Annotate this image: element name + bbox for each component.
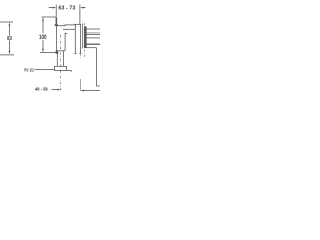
body bottom-right edge (96, 85, 100, 87)
dim 83 top extension line (0, 21, 13, 23)
plate bottom cap back (79, 53, 81, 55)
housing right edge (64, 33, 66, 51)
svg-text:63 - 73: 63 - 73 (58, 6, 75, 12)
body centerline dash-dot (84, 23, 86, 57)
handle bar (56, 17, 58, 24)
svg-text:100: 100 (39, 34, 47, 41)
dim 100 top extension line (42, 16, 56, 18)
body boss (84, 26, 86, 48)
housing inner line (63, 28, 75, 30)
bottom pipe right wall (63, 51, 65, 67)
body line c (86, 43, 100, 45)
wall line upper (right extension of dim 63-73) (79, 5, 81, 25)
body right vertical (95, 48, 97, 86)
wall line lower dash-dot to bottom dim (79, 54, 81, 58)
dim 48-58 left arrow (52, 89, 61, 91)
handle hub (55, 24, 58, 26)
body top edge (86, 28, 100, 30)
nut outline (55, 66, 67, 70)
dim 100 bottom extension line (40, 52, 56, 54)
svg-text:83: 83 (7, 36, 12, 42)
junction blob (56, 51, 59, 54)
svg-text:48 - 58: 48 - 58 (35, 86, 48, 91)
dim 48-58 right arrow (80, 90, 100, 92)
plate back line (79, 24, 81, 53)
housing stub (65, 33, 67, 35)
plate front line (74, 24, 76, 53)
dim 83 line with arrows (9, 22, 11, 54)
body line b (86, 37, 100, 39)
leader line (35, 69, 55, 71)
nut bottom extension (67, 69, 72, 71)
plate top cap (75, 23, 82, 25)
dim 100 line with arrows (42, 17, 44, 52)
nut bottom tick (70, 70, 72, 72)
dim 83 bottom extension line (0, 54, 14, 56)
body left edge (85, 26, 87, 48)
bottom pipe left wall (56, 51, 58, 67)
dim 63-73 left extension line (55, 5, 57, 17)
pipe centerline dash-dot (60, 35, 62, 92)
dim 63-73 right arrow (80, 7, 85, 9)
housing bottom edge (57, 50, 66, 52)
plate bottom cap front (74, 53, 76, 55)
housing top edge (57, 24, 76, 27)
housing left edge (56, 25, 58, 51)
inner wall line (82, 24, 84, 49)
svg-text:RC 1/2: RC 1/2 (24, 68, 34, 74)
dim 63-73 left arrow (49, 7, 57, 9)
body bottom edge (86, 47, 96, 49)
body line a (86, 32, 100, 34)
